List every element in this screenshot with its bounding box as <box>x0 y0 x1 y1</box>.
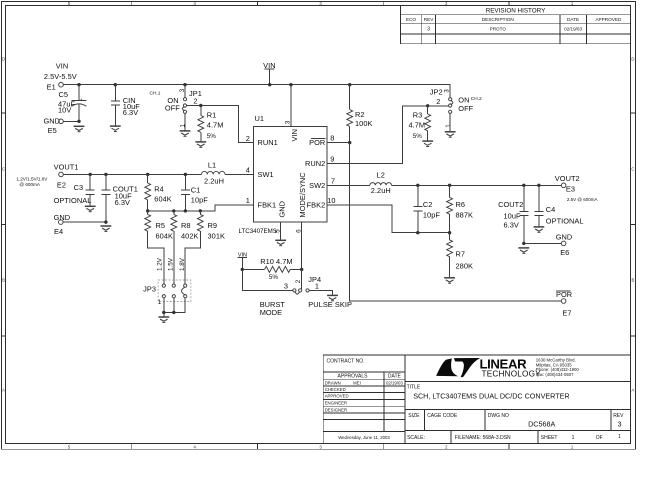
svg-text:FILENAME: 568A-3.DSN: FILENAME: 568A-3.DSN <box>455 435 511 441</box>
svg-text:C5: C5 <box>59 90 69 99</box>
ground (JP4) <box>327 295 338 300</box>
zone ticks top border <box>132 2 509 6</box>
svg-text:RUN1: RUN1 <box>258 138 278 147</box>
svg-text:E3: E3 <box>566 185 575 194</box>
wire POR net down to E7 <box>348 141 351 144</box>
svg-text:C1: C1 <box>191 185 201 194</box>
capacitor C4 <box>537 184 540 187</box>
svg-text:POR: POR <box>309 138 325 147</box>
svg-text:DESIGNER: DESIGNER <box>325 407 347 412</box>
svg-text:3: 3 <box>444 89 451 93</box>
capacitor COUT2 <box>522 184 525 187</box>
ground (JP2) <box>445 132 456 137</box>
wire COUT2 bottom to E6 <box>522 242 525 245</box>
capacitor COUT1 <box>104 173 107 176</box>
svg-text:FBK1: FBK1 <box>258 200 277 209</box>
svg-text:100K: 100K <box>355 119 372 128</box>
ground (JP3) <box>158 317 169 322</box>
resistor R3 <box>426 104 429 107</box>
svg-text:R9: R9 <box>208 221 218 230</box>
capacitor C2 <box>416 184 419 187</box>
svg-text:SIZE: SIZE <box>408 413 420 419</box>
wire FBK1 row <box>148 205 254 211</box>
wire MODE/SYNC pin6 down <box>301 222 303 289</box>
svg-text:1: 1 <box>180 124 187 128</box>
capacitor CIN <box>114 83 117 86</box>
svg-text:1: 1 <box>246 196 250 205</box>
inductor L1 <box>201 171 225 174</box>
svg-text:C: C <box>631 167 634 172</box>
resistor R1 <box>199 104 202 107</box>
svg-text:7: 7 <box>331 176 335 185</box>
svg-text:C4: C4 <box>546 205 556 214</box>
svg-text:4: 4 <box>246 166 250 175</box>
svg-text:5%: 5% <box>207 133 217 140</box>
svg-text:8: 8 <box>330 134 334 143</box>
svg-text:R10 4.7M: R10 4.7M <box>260 257 292 266</box>
svg-text:1.8V: 1.8V <box>179 257 186 271</box>
svg-text:C: C <box>2 167 5 172</box>
ground (U1 GND pin) <box>275 240 286 245</box>
svg-text:GND: GND <box>556 233 573 242</box>
svg-text:CONTRACT NO.: CONTRACT NO. <box>327 359 365 365</box>
resistor R5 <box>148 211 164 284</box>
svg-text:FBK2: FBK2 <box>307 200 326 209</box>
svg-text:9: 9 <box>330 154 334 163</box>
svg-text:R4: R4 <box>154 184 164 193</box>
svg-text:1: 1 <box>618 434 621 440</box>
svg-text:2: 2 <box>193 97 197 106</box>
svg-text:DC568A: DC568A <box>528 419 555 428</box>
wire L1 to SW1 <box>225 173 254 175</box>
svg-text:R5: R5 <box>156 221 166 230</box>
svg-text:APPROVED: APPROVED <box>325 394 349 399</box>
inductor L2 <box>370 183 392 186</box>
ground (COUT2) <box>518 248 529 253</box>
svg-text:3: 3 <box>284 282 288 291</box>
svg-text:301K: 301K <box>208 231 225 240</box>
zone ticks left border <box>2 113 6 336</box>
svg-text:ECO: ECO <box>406 17 417 22</box>
capacitor C3 <box>89 173 92 176</box>
wire JP4 pin1 to ground <box>309 290 332 294</box>
wire JP1 pin1 to ground <box>184 113 186 130</box>
svg-text:02/19/03: 02/19/03 <box>564 27 582 32</box>
svg-text:L2: L2 <box>377 171 385 180</box>
terminal E6 / GND <box>561 241 566 246</box>
svg-text:2: 2 <box>436 97 440 106</box>
svg-text:OPTIONAL: OPTIONAL <box>54 196 92 205</box>
svg-text:TITLE: TITLE <box>407 384 421 390</box>
svg-text:1.2V/1.5V/1.8V: 1.2V/1.5V/1.8V <box>16 176 48 181</box>
resistor R2 <box>348 83 351 86</box>
ground (CIN) <box>110 126 121 131</box>
svg-text:5%: 5% <box>413 133 423 140</box>
svg-text:B: B <box>632 278 635 283</box>
title block rows right <box>405 382 631 444</box>
svg-text:OFF: OFF <box>165 104 180 113</box>
ground (JP1) <box>180 131 191 136</box>
svg-text:U1: U1 <box>255 114 265 123</box>
svg-text:E7: E7 <box>562 309 571 318</box>
svg-text:A: A <box>2 388 5 393</box>
capacitor C5 <box>77 83 80 86</box>
svg-text:SHEET: SHEET <box>541 435 558 441</box>
svg-text:VOUT2: VOUT2 <box>555 174 580 183</box>
wire VIN top rail <box>63 85 450 98</box>
svg-text:C2: C2 <box>423 200 433 209</box>
svg-text:JP2: JP2 <box>430 88 443 97</box>
resistor R9 <box>185 211 200 284</box>
terminal E4 / GND <box>59 220 64 225</box>
svg-text:E1: E1 <box>47 83 56 92</box>
svg-text:3: 3 <box>427 27 430 33</box>
svg-text:Wednesday, June 11, 2003: Wednesday, June 11, 2003 <box>338 435 390 440</box>
svg-text:2: 2 <box>295 279 302 283</box>
svg-text:D: D <box>631 57 634 62</box>
svg-text:1: 1 <box>445 124 452 128</box>
svg-text:GND: GND <box>44 117 61 126</box>
resistor R7 <box>448 231 451 234</box>
resistor R4 <box>146 173 149 176</box>
svg-text:SW1: SW1 <box>258 170 274 179</box>
svg-text:10V: 10V <box>58 105 71 114</box>
wire VOUT2 rail <box>392 184 562 186</box>
ground (R1) <box>195 142 206 147</box>
svg-text:3: 3 <box>618 420 622 429</box>
resistor R6 <box>448 184 451 187</box>
svg-text:C3: C3 <box>74 183 84 192</box>
svg-text:ENGINEER: ENGINEER <box>325 401 347 406</box>
svg-text:R7: R7 <box>456 249 466 258</box>
wire U1 GND pin to ground <box>280 222 282 240</box>
terminal E3 / VOUT2 <box>561 183 566 188</box>
terminal E5 / GND <box>59 119 64 124</box>
svg-text:5%: 5% <box>269 274 279 281</box>
svg-text:COUT2: COUT2 <box>498 200 523 209</box>
svg-text:GND: GND <box>277 201 286 218</box>
svg-text:RUN2: RUN2 <box>305 159 325 168</box>
svg-text:OPTIONAL: OPTIONAL <box>546 216 584 225</box>
svg-text:PROTO: PROTO <box>490 27 507 32</box>
svg-text:10: 10 <box>327 196 335 205</box>
svg-text:4.7M: 4.7M <box>207 121 224 130</box>
svg-text:402K: 402K <box>181 231 198 240</box>
svg-text:2: 2 <box>246 134 250 143</box>
svg-text:887K: 887K <box>456 210 473 219</box>
wire R10 left to JP4 pin3 <box>242 269 292 290</box>
svg-text:DWG NO: DWG NO <box>488 413 509 419</box>
svg-text:B: B <box>2 278 5 283</box>
terminal E7 / POR <box>561 299 566 304</box>
svg-text:6.3V: 6.3V <box>115 198 130 207</box>
svg-text:E6: E6 <box>560 248 569 257</box>
svg-text:+: + <box>80 97 83 102</box>
svg-text:1: 1 <box>158 299 162 306</box>
svg-text:CH.2: CH.2 <box>471 96 482 102</box>
svg-text:TECHNOLOGY: TECHNOLOGY <box>482 370 542 379</box>
svg-text:1.5V: 1.5V <box>168 257 175 271</box>
svg-text:GND: GND <box>54 213 71 222</box>
svg-text:VIN: VIN <box>290 129 299 141</box>
svg-text:R1: R1 <box>207 111 217 120</box>
svg-text:@ 600mA: @ 600mA <box>19 182 40 187</box>
svg-text:DESCRIPTION: DESCRIPTION <box>482 17 514 22</box>
svg-text:DATE: DATE <box>388 374 402 380</box>
svg-text:6.3V: 6.3V <box>123 108 138 117</box>
ground (COUT1) <box>101 226 112 231</box>
wire FBK2 pin10 <box>327 205 450 233</box>
Linear Technology logo <box>436 357 579 379</box>
svg-text:3: 3 <box>285 120 292 124</box>
svg-text:1: 1 <box>315 282 319 291</box>
ground (C5/E5) <box>74 126 85 131</box>
svg-text:DATE: DATE <box>567 17 579 22</box>
svg-text:10pF: 10pF <box>191 195 208 204</box>
svg-text:E5: E5 <box>48 126 57 135</box>
resistor R8 <box>173 211 175 284</box>
ground (C3) <box>85 206 96 211</box>
svg-text:E4: E4 <box>54 227 63 236</box>
svg-text:MODE/SYNC: MODE/SYNC <box>298 172 307 218</box>
wire RUN2 pin9 to JP2 <box>327 106 449 164</box>
svg-text:CAGE CODE: CAGE CODE <box>427 413 458 419</box>
svg-text:604K: 604K <box>156 231 173 240</box>
svg-text:10uF: 10uF <box>504 211 521 220</box>
svg-text:D: D <box>2 57 5 62</box>
capacitor C1 <box>184 173 187 176</box>
svg-text:OF: OF <box>596 435 603 441</box>
ground (C4) <box>534 227 545 232</box>
svg-text:2.2uH: 2.2uH <box>371 186 391 195</box>
svg-text:R8: R8 <box>181 221 191 230</box>
svg-text:R3: R3 <box>413 110 423 119</box>
resistor R10 <box>241 268 244 271</box>
ground (R7) <box>444 278 455 283</box>
svg-text:REVISION HISTORY: REVISION HISTORY <box>486 8 546 15</box>
svg-text:SCH, LTC3407EMS DUAL DC/DC CON: SCH, LTC3407EMS DUAL DC/DC CONVERTER <box>413 392 569 401</box>
svg-text:JP3: JP3 <box>143 284 156 293</box>
svg-text:10pF: 10pF <box>423 210 440 219</box>
svg-text:1: 1 <box>572 435 575 441</box>
wire JP1 pin2 to RUN1 <box>187 106 254 143</box>
svg-text:REV: REV <box>424 17 435 22</box>
svg-text:DRAWN: DRAWN <box>325 380 341 385</box>
svg-text:2.2uH: 2.2uH <box>204 176 224 185</box>
svg-text:6.3V: 6.3V <box>504 220 519 229</box>
zone ticks bottom border <box>132 444 509 450</box>
svg-text:SCALE:: SCALE: <box>407 435 425 441</box>
svg-text:280K: 280K <box>456 261 473 270</box>
op-amp U1 LTC3407EMS body <box>254 126 327 222</box>
svg-text:SW2: SW2 <box>309 181 325 190</box>
title block <box>323 355 630 444</box>
svg-text:E2: E2 <box>57 181 66 190</box>
svg-text:R2: R2 <box>355 110 365 119</box>
wire VOUT1 rail <box>63 173 201 175</box>
jumper JP2 <box>449 98 452 101</box>
terminal E1 <box>59 82 64 87</box>
wire U1 VIN pin3 drop <box>289 83 292 86</box>
wire JP3 bottom to ground <box>164 298 185 317</box>
svg-text:L1: L1 <box>208 160 216 169</box>
jumper JP4 <box>293 289 296 292</box>
wire JP2 pin1 to ground <box>449 113 451 131</box>
svg-text:PULSE SKIP: PULSE SKIP <box>308 300 352 309</box>
ground (R3) <box>422 141 433 146</box>
svg-text:4.7M: 4.7M <box>409 121 426 130</box>
svg-text:VIN: VIN <box>56 61 68 70</box>
svg-text:2.5V-5.5V: 2.5V-5.5V <box>44 72 77 81</box>
svg-text:1.2V: 1.2V <box>157 257 164 271</box>
revision history table <box>400 6 630 44</box>
svg-text:APPROVED: APPROVED <box>595 17 622 22</box>
svg-text:3: 3 <box>179 88 186 92</box>
wire POR pin8 <box>327 142 350 144</box>
svg-text:02/19/03: 02/19/03 <box>386 380 403 385</box>
terminal E2 / VOUT1 <box>59 172 64 177</box>
svg-text:A: A <box>632 388 635 393</box>
svg-text:LTC3407EMS: LTC3407EMS <box>239 228 277 235</box>
svg-text:OFF: OFF <box>458 104 473 113</box>
svg-text:REV: REV <box>613 413 624 419</box>
svg-text:MODE: MODE <box>260 308 282 317</box>
jumper JP1 <box>183 83 186 86</box>
svg-text:R6: R6 <box>456 200 466 209</box>
svg-text:604K: 604K <box>154 194 171 203</box>
svg-text:CHECKED: CHECKED <box>325 387 346 392</box>
zone ticks right border <box>631 113 636 336</box>
svg-text:MEI: MEI <box>353 380 361 385</box>
svg-text:APPROVALS: APPROVALS <box>338 374 369 380</box>
svg-text:CH.1: CH.1 <box>150 90 161 96</box>
svg-text:VOUT1: VOUT1 <box>54 162 79 171</box>
svg-text:Fax: (408)434-0507: Fax: (408)434-0507 <box>536 372 574 377</box>
wire SW2 pin7 to L2 <box>327 184 370 186</box>
jumper JP3 <box>158 280 191 302</box>
svg-text:2.5V @ 600mA: 2.5V @ 600mA <box>567 197 598 202</box>
